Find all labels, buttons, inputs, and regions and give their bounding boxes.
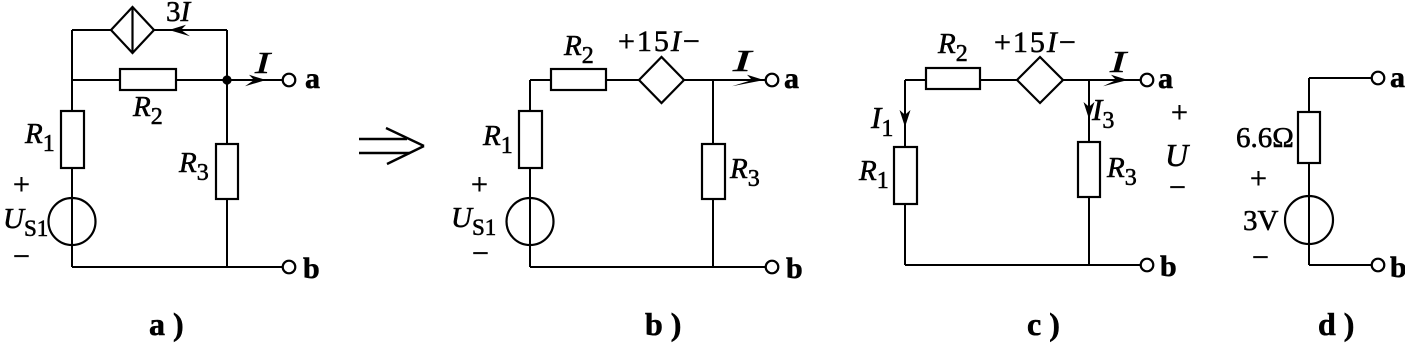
svg-text:R2: R2 (563, 30, 594, 69)
resistor R1 of b (519, 111, 542, 168)
svg-text:c ): c ) (1027, 306, 1060, 342)
svg-text:b: b (1160, 250, 1177, 283)
arrow for 3I pointing left (169, 25, 190, 37)
terminal a of circuit c (1141, 74, 1154, 87)
svg-text:R3: R3 (729, 153, 760, 192)
wire: left vertical branch of a (71, 30, 73, 267)
svg-text:US1: US1 (3, 203, 48, 241)
svg-text:b: b (786, 252, 803, 285)
wire: left vertical branch of b (529, 80, 531, 267)
svg-text:b ): b ) (645, 306, 681, 342)
voltage source US1 of a (circle) (49, 198, 96, 245)
resistor R1 of c (894, 147, 917, 204)
terminal b of circuit d (1372, 259, 1385, 272)
wire: top horizontal of c (905, 79, 1141, 81)
wire: right vertical branch of a (226, 30, 228, 267)
resistor R1 of a (61, 111, 84, 168)
terminal a of circuit d (1372, 72, 1385, 85)
wire: left vertical branch of c (904, 80, 906, 265)
arrow for current I3 of c (1084, 102, 1095, 119)
svg-text:I: I (254, 45, 273, 80)
svg-text:a: a (784, 62, 799, 95)
svg-text:−: − (13, 240, 30, 273)
svg-text:R2: R2 (132, 91, 163, 130)
svg-text:a: a (305, 62, 320, 95)
resistor R2 of c (926, 68, 980, 89)
svg-text:+15I−: +15I− (618, 25, 702, 58)
wire: middle horizontal of a (72, 79, 227, 81)
svg-text:R3: R3 (1106, 152, 1137, 191)
dependent current source 3I (diamond) (111, 7, 154, 53)
svg-text:−: − (1169, 171, 1186, 204)
svg-text:R1: R1 (482, 120, 513, 159)
svg-text:b: b (1390, 251, 1405, 284)
wire: top horizontal of d (1309, 77, 1372, 79)
node junction dot of a (222, 75, 231, 84)
wire: bottom horizontal of d (1309, 264, 1372, 266)
svg-text:R3: R3 (178, 147, 209, 186)
svg-text:a: a (1158, 62, 1173, 95)
resistor R3 of a (216, 144, 238, 199)
svg-text:R2: R2 (937, 28, 968, 67)
svg-text:d ): d ) (1318, 306, 1354, 342)
svg-text:−: − (1252, 241, 1269, 274)
svg-text:3I: 3I (166, 0, 192, 28)
resistor R2 of a (120, 69, 176, 90)
terminal a of circuit b (766, 74, 779, 87)
dependent voltage source 15I of b (diamond) (639, 57, 684, 103)
svg-text:+15I−: +15I− (994, 26, 1078, 59)
wire: top horizontal of b (530, 79, 766, 81)
svg-text:US1: US1 (451, 202, 496, 240)
svg-text:+: + (1250, 162, 1267, 195)
svg-text:I3: I3 (1091, 92, 1114, 134)
svg-text:R1: R1 (858, 155, 889, 194)
voltage source 3V of d (circle) (1285, 196, 1333, 244)
wire: bottom horizontal of a (72, 266, 283, 268)
resistor R2 of b (551, 69, 606, 90)
resistor R3 of b (702, 144, 725, 199)
wire: right vertical branch of c (1088, 80, 1090, 265)
svg-text:3V: 3V (1243, 205, 1279, 237)
arrow for current I1 of c (900, 110, 911, 127)
arrow for current I of c (1103, 75, 1128, 87)
terminal b of circuit a (283, 261, 296, 274)
wire: right vertical branch of b (712, 80, 714, 267)
arrow for current I of a (245, 75, 266, 87)
voltage source US1 of b (circle) (507, 198, 554, 245)
svg-text:+: + (13, 168, 30, 201)
svg-text:U: U (1165, 137, 1190, 173)
terminal b of circuit c (1141, 259, 1154, 272)
svg-text:+: + (1171, 96, 1188, 129)
svg-text:I: I (1108, 44, 1128, 79)
wire: bottom horizontal of c (905, 264, 1141, 266)
svg-text:R1: R1 (24, 118, 55, 157)
dependent voltage source 15I of c (diamond) (1017, 57, 1063, 103)
arrow for current I of b (732, 75, 764, 87)
svg-text:a ): a ) (149, 306, 184, 342)
terminal a of circuit a (283, 74, 296, 87)
wire: top loop horizontal of a (72, 29, 227, 31)
svg-text:+: + (471, 168, 488, 201)
svg-text:b: b (303, 252, 320, 285)
terminal b of circuit b (766, 261, 779, 274)
svg-text:I: I (731, 43, 754, 78)
svg-text:I1: I1 (870, 100, 893, 142)
svg-text:6.6Ω: 6.6Ω (1236, 122, 1294, 154)
svg-text:a: a (1390, 61, 1405, 94)
resistor R3 of c (1078, 142, 1100, 197)
wire: vertical branch of d (1308, 78, 1310, 265)
resistor 6.6 ohm of d (1298, 112, 1320, 163)
wire: bottom horizontal of b (530, 266, 766, 268)
wire: node to terminal a (227, 79, 283, 81)
svg-text:−: − (472, 237, 489, 270)
